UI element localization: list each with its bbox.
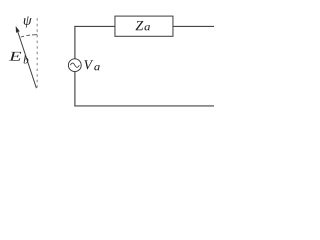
label E_b [9, 52, 21, 61]
vector E_b (phasor arrow with filled head) [16, 26, 37, 88]
label V_a [84, 60, 93, 69]
wire: bottom horizontal (source to right terminal) [74, 105, 214, 107]
label Z_a [136, 21, 144, 30]
wire: left vertical lower (source bottom to corner) [74, 71, 76, 106]
wire: top right horizontal (box to right terminal) [173, 25, 214, 27]
sine symbol inside source [70, 63, 79, 67]
impedance box Z_a [115, 16, 173, 36]
AC voltage source circle [68, 59, 81, 72]
node: dashed vertical reference axis [36, 18, 38, 87]
wire: left vertical upper (corner down to source top) [74, 26, 76, 59]
label psi [24, 16, 32, 27]
angle arc psi (dashed) [21, 35, 37, 37]
wire: top left horizontal (source top to box) [74, 25, 115, 27]
